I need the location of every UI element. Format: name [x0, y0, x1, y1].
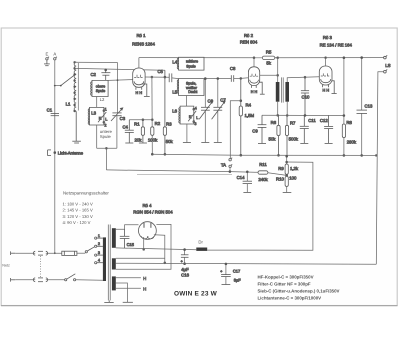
svg-text:280k: 280k	[347, 139, 357, 144]
svg-text:Spule: Spule	[186, 64, 195, 68]
tube Rö3 RE 134 / RE 164	[319, 35, 352, 92]
svg-text:LS: LS	[385, 63, 390, 68]
coil L1 tapped antenna coil	[66, 62, 79, 112]
svg-text:H H: H H	[136, 91, 143, 95]
svg-text:C16: C16	[181, 272, 189, 277]
connector contacts top	[33, 251, 47, 255]
svg-text:20k: 20k	[135, 137, 143, 142]
wire heater leads H H	[116, 276, 146, 291]
svg-text:R9: R9	[278, 166, 284, 171]
wire ganged link dotted	[40, 256, 42, 277]
capacitor C9	[252, 115, 266, 143]
wire ground line to LS drop	[116, 263, 377, 264]
coil L2 obere Spule box	[91, 80, 108, 96]
wire A to switch pivot	[54, 85, 61, 87]
wire C8 junction to tube2 grid	[240, 78, 249, 80]
wire tube1 anode lead to C5	[145, 76, 169, 78]
capacitor C15	[120, 229, 135, 248]
svg-text:4: 90 V - 120 V: 4: 90 V - 120 V	[63, 220, 91, 225]
svg-text:R10: R10	[276, 176, 284, 181]
wire L3 bottom join C3 bottom	[97, 125, 117, 149]
wire rail C lower rail	[106, 170, 286, 176]
svg-text:C17: C17	[233, 269, 241, 274]
svg-text:R1: R1	[134, 121, 140, 126]
resistor R4 1,5M grid leak	[239, 78, 254, 156]
fuse Si	[62, 251, 85, 255]
resistor R8 280k	[342, 57, 357, 157]
wire tube2 anode to top rail	[253, 57, 255, 67]
resistor R10 100	[276, 175, 297, 193]
wire L5 to L6	[185, 96, 187, 107]
svg-text:C14: C14	[237, 175, 245, 180]
capacitor C16 4uF	[181, 249, 190, 278]
svg-text:TA: TA	[221, 163, 226, 168]
svg-text:C1: C1	[47, 107, 53, 112]
wire right anode loop to filament winding bottom	[116, 224, 171, 269]
svg-text:H H: H H	[251, 90, 258, 94]
svg-text:L6: L6	[172, 109, 177, 114]
svg-text:C13: C13	[365, 104, 373, 109]
wire branch to C4 R1	[129, 119, 153, 121]
svg-text:mittlere: mittlere	[186, 60, 198, 64]
wire tube1 screen down to rail A	[151, 76, 153, 154]
wire rail A ground rail	[152, 154, 376, 155]
svg-text:Draht: Draht	[188, 90, 197, 94]
node Netz label	[2, 263, 10, 267]
svg-text:L4: L4	[172, 60, 177, 65]
coil L5 Spule weisser Draht box	[172, 79, 204, 96]
svg-text:Spule: Spule	[100, 134, 112, 139]
svg-text:HF-Koppel-C = 300pF/350V: HF-Koppel-C = 300pF/350V	[258, 274, 314, 279]
capacitor C10	[301, 77, 310, 116]
transformer core	[108, 225, 110, 301]
svg-text:R8: R8	[346, 120, 352, 125]
resistor R5 5k	[262, 49, 275, 65]
inductor Dr choke	[196, 240, 207, 251]
node Netzspannungsschalter table	[63, 191, 110, 225]
frame bottom shadow	[1, 305, 398, 307]
capacitor C11	[300, 115, 317, 143]
node capacitor values note	[258, 274, 340, 300]
svg-text:1: 1	[105, 108, 107, 112]
svg-text:2: 2	[98, 242, 100, 246]
node OWIN E 23 W title	[174, 291, 218, 298]
svg-text:R2: R2	[155, 121, 161, 126]
terminal mains plug bottom	[11, 278, 16, 282]
svg-text:240k: 240k	[258, 177, 268, 182]
svg-text:obere: obere	[96, 84, 105, 88]
svg-text:C9: C9	[252, 128, 258, 133]
svg-text:+: +	[220, 270, 222, 274]
capacitor C13	[357, 57, 374, 157]
capacitor C14	[237, 171, 252, 192]
svg-text:L1: L1	[66, 101, 71, 106]
svg-text:Filter-C Gitter NF = 300pF: Filter-C Gitter NF = 300pF	[258, 281, 311, 286]
resistor R6 50k	[269, 115, 281, 156]
svg-text:1: 180 V - 240 V: 1: 180 V - 240 V	[63, 202, 93, 207]
wire R5 to transformer primary	[275, 57, 279, 82]
svg-text:Lichtantenne-C = 300pF/1000V: Lichtantenne-C = 300pF/1000V	[258, 295, 322, 300]
node L2 label	[100, 97, 105, 102]
capacitor C3 variable	[111, 108, 126, 148]
ground symbol below E	[44, 60, 50, 66]
wire tube4 right side to ground line	[154, 235, 166, 264]
wire tube4 cathode down to B+ line	[143, 237, 145, 250]
wire mains bottom	[15, 279, 64, 281]
svg-text:L2: L2	[100, 97, 105, 102]
svg-text:Netz: Netz	[2, 263, 10, 267]
wire B+ line from HV winding to choke	[116, 248, 197, 250]
wire bias line R9 top to power section	[207, 162, 313, 250]
tube Rö2 REN 904	[240, 33, 260, 94]
svg-text:L: L	[105, 117, 107, 121]
svg-text:100: 100	[289, 176, 297, 181]
svg-text:R5: R5	[266, 49, 272, 54]
svg-text:RE 134 / RE 164: RE 134 / RE 164	[320, 43, 353, 48]
svg-text:H: H	[143, 286, 146, 291]
wire tube1 anode to top rail	[138, 58, 140, 68]
svg-text:1: 1	[98, 234, 100, 238]
svg-text:3: 3	[98, 251, 100, 255]
svg-text:OWIN E 23 W: OWIN E 23 W	[174, 291, 218, 298]
wire tube2 cathode tick	[259, 82, 264, 94]
svg-text:H H: H H	[323, 88, 330, 92]
svg-text:C11: C11	[308, 118, 316, 123]
svg-text:+: +	[181, 259, 183, 263]
svg-text:A: A	[53, 51, 56, 56]
resistor R9 1,2k	[278, 155, 299, 174]
svg-text:C8: C8	[230, 66, 236, 71]
svg-text:C2: C2	[90, 72, 96, 77]
svg-text:Spule: Spule	[96, 89, 105, 93]
capacitor C2	[90, 69, 110, 80]
wire grid line L5 top to tube2	[204, 78, 231, 80]
svg-text:R6: R6	[271, 120, 277, 125]
capacitor C4	[122, 120, 133, 143]
svg-text:L5: L5	[172, 89, 177, 94]
svg-text:C12: C12	[320, 118, 328, 123]
node untere Spule label	[100, 129, 113, 139]
capacitor C6 variable	[199, 78, 213, 143]
svg-text:4µF: 4µF	[181, 267, 189, 272]
capacitor C7 variable	[212, 78, 227, 143]
ground core chassis	[104, 300, 113, 302]
tube Rö4 RGN 354 / RGN 504 rectifier	[133, 203, 173, 239]
Licht-Antenne connector	[48, 150, 84, 156]
wire tap line 2 to R3 column	[75, 68, 165, 70]
capacitor C5	[157, 69, 171, 82]
svg-text:R3: R3	[166, 121, 172, 126]
wire transformer secondary top to tube3 grid	[287, 76, 319, 82]
wire L2 bottom to L3 top	[96, 97, 98, 108]
terminal LS top	[384, 55, 388, 59]
wire grid branch down to TA	[230, 101, 241, 159]
svg-text:K: K	[99, 117, 102, 121]
transformer secondary heater winding	[112, 276, 116, 290]
wire LS return down right side	[375, 72, 383, 265]
switch arm antenna selector	[60, 74, 76, 87]
svg-text:H: H	[143, 276, 146, 281]
wire mains top	[15, 252, 62, 254]
svg-text:K: K	[189, 115, 192, 119]
transformer secondary HV winding	[112, 228, 116, 248]
svg-text:50k: 50k	[166, 139, 174, 144]
wire filament winding top lead	[116, 257, 165, 259]
ground heater center tap	[116, 283, 133, 302]
wire transformer secondary bottom to R7 line	[286, 102, 288, 117]
terminal LS bottom	[384, 63, 391, 73]
wire faint parallel line	[137, 173, 232, 175]
wire L6 bottom to chassis	[183, 124, 191, 143]
wire tube3 cathode tick	[332, 81, 337, 94]
svg-text:R4: R4	[246, 103, 252, 108]
resistor R1 20k	[134, 120, 147, 143]
resistor R2 100k	[148, 121, 161, 155]
svg-text:RGN 354 / RGN 504: RGN 354 / RGN 504	[133, 209, 173, 214]
resistor R7 500k	[285, 115, 298, 156]
switch voltage selector arm	[85, 247, 94, 253]
wire L1 bottom to chassis	[72, 111, 81, 143]
svg-text:2: 2	[104, 123, 106, 127]
svg-text:500k: 500k	[289, 136, 299, 141]
svg-text:2: 145 V - 165 V: 2: 145 V - 165 V	[63, 208, 93, 213]
wire tube2 anode to transformer primary	[260, 74, 279, 76]
svg-text:L: L	[196, 116, 198, 120]
capacitor C17 8uF	[220, 263, 241, 285]
transformer secondary rectifier filament winding	[112, 258, 116, 269]
terminal mains plug top	[11, 251, 16, 255]
wire bus line under transformer	[262, 114, 344, 116]
svg-text:3: 120 V - 130 V: 3: 120 V - 130 V	[63, 214, 93, 219]
wire vertical from tap line1 down to C3	[117, 63, 119, 113]
wire grid line L2 box to tube1	[108, 79, 133, 81]
wire transformer primary bottom to R6 line	[277, 102, 279, 117]
svg-text:3: 3	[194, 122, 196, 126]
terminal A	[53, 51, 57, 60]
svg-text:Rö 4: Rö 4	[142, 203, 152, 208]
wire tube3 anode to top rail	[325, 57, 327, 66]
svg-text:REN 804: REN 804	[240, 40, 258, 45]
svg-text:C10: C10	[302, 95, 310, 100]
wire down to lower rail	[105, 148, 107, 170]
coil L4 mittlere Spule box	[172, 57, 204, 70]
svg-text:50k: 50k	[269, 136, 277, 141]
svg-text:Sieb-C (Gitter-u.Anodensp.) 0,: Sieb-C (Gitter-u.Anodensp.) 0,1uF/350V	[258, 289, 340, 294]
terminal TA lower	[221, 163, 232, 173]
resistor R3 50k	[163, 70, 173, 155]
svg-text:RENS 1264: RENS 1264	[132, 42, 155, 47]
switch mains on-off	[65, 274, 103, 281]
svg-text:Rö 1: Rö 1	[136, 33, 146, 38]
svg-text:R11: R11	[259, 162, 267, 167]
svg-text:C4: C4	[122, 124, 128, 129]
svg-text:Licht-Antenne: Licht-Antenne	[58, 150, 84, 155]
svg-text:L3: L3	[91, 110, 96, 115]
terminal TA upper	[229, 158, 232, 161]
svg-text:R7: R7	[290, 120, 296, 125]
svg-text:C3: C3	[120, 116, 126, 121]
svg-text:1,2k: 1,2k	[290, 166, 299, 171]
svg-text:C7: C7	[220, 97, 226, 102]
coil L3 box with K/L switch	[88, 107, 107, 127]
wire tube1 cathode tick	[142, 84, 150, 96]
svg-text:C6: C6	[208, 98, 214, 103]
svg-text:1,5M: 1,5M	[245, 113, 255, 118]
tube Rö1 RENS 1264	[132, 33, 155, 95]
wire HV winding top to left anode	[116, 225, 139, 230]
resistor R11 240k	[258, 162, 269, 182]
transformer interstage AF	[276, 77, 289, 102]
svg-text:Netzspannungsschalter: Netzspannungsschalter	[63, 191, 109, 196]
capacitor C12	[320, 116, 333, 144]
wire C5 to L5 box	[172, 77, 179, 80]
svg-text:8µF: 8µF	[234, 278, 242, 283]
node selector taps 1-4	[95, 234, 103, 264]
svg-text:100k: 100k	[148, 138, 158, 143]
capacitor C1	[47, 107, 59, 115]
wire antenna line down	[54, 60, 56, 253]
svg-text:C15: C15	[127, 242, 135, 247]
coil L6 box with K/L switch	[172, 106, 198, 126]
svg-text:4: 4	[98, 259, 100, 263]
terminal E	[45, 51, 49, 60]
svg-text:Dr: Dr	[198, 240, 203, 245]
svg-text:4: 4	[195, 107, 197, 111]
svg-text:C5: C5	[157, 69, 163, 74]
svg-text:E: E	[45, 51, 48, 56]
transformer mains primary	[103, 237, 106, 281]
wire top rail	[139, 57, 384, 59]
wire tap line 1	[75, 61, 118, 63]
capacitor C8	[230, 66, 241, 82]
svg-text:Rö 3: Rö 3	[323, 35, 333, 40]
svg-text:Rö 2: Rö 2	[244, 33, 254, 38]
connector contacts bottom	[33, 278, 47, 282]
